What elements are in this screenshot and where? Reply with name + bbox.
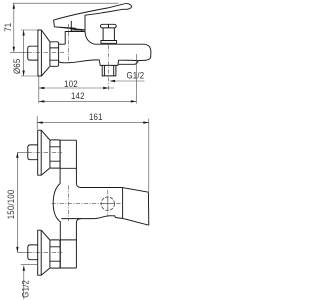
cartridge dome <box>65 32 85 45</box>
svg-text:142: 142 <box>71 90 85 101</box>
extension line 161 right <box>148 119 150 192</box>
outlet circle crosshair <box>101 197 115 211</box>
spout top slope <box>123 188 149 193</box>
spout divider line <box>122 188 124 219</box>
nut bottom connection <box>50 240 60 268</box>
arrow up 71 <box>13 3 15 9</box>
nut facet lines <box>50 48 59 60</box>
wall pipe stub bottom <box>28 245 38 260</box>
wall pipe stub (side) <box>28 46 38 60</box>
svg-text:G1/2: G1/2 <box>126 70 144 81</box>
nut facets top <box>50 147 60 161</box>
dome fillet to body <box>85 32 95 45</box>
shower outlet flange <box>99 60 118 66</box>
arrow down d65 <box>22 71 24 77</box>
top leg block bottom line <box>60 167 76 169</box>
svg-text:G1/2: G1/2 <box>20 280 31 298</box>
svg-text:161: 161 <box>89 111 103 122</box>
svg-text:71: 71 <box>2 23 13 32</box>
neck line right <box>81 30 83 32</box>
arrow right 142 <box>131 100 137 102</box>
spout lower line <box>118 61 138 65</box>
bottom leg cap <box>60 267 76 269</box>
lever handle <box>54 4 132 32</box>
extension line pipe axis left <box>10 51 28 53</box>
centerline capsule axis vertical <box>68 186 70 222</box>
centerline circle vertical <box>107 190 109 217</box>
centerline bottom connection <box>28 251 62 253</box>
dimension line 161 <box>37 122 149 124</box>
escutcheon (side) <box>38 30 42 76</box>
capsule/spout bottom edge <box>61 216 149 226</box>
knob flange <box>101 41 117 44</box>
cone bottom edge <box>41 66 50 76</box>
leader arrow G1/2 side <box>110 80 116 82</box>
centerline capsule horizontal <box>52 203 125 205</box>
svg-text:150/100: 150/100 <box>6 189 17 219</box>
extension line 150/100 bottom <box>17 251 27 253</box>
bottom leg right edge + fillet <box>76 219 81 268</box>
neck line left <box>70 21 72 32</box>
thread inner lines <box>104 65 113 76</box>
grip underside line <box>71 29 85 31</box>
arrow left 142 <box>39 100 45 102</box>
top leg right edge + fillet <box>76 140 81 187</box>
arrow right 102 <box>103 87 109 89</box>
extension line wall face <box>38 77 40 104</box>
arrow up 150/100 <box>16 152 18 158</box>
leader G1/2 side <box>110 80 144 82</box>
body top edge right + rounded end <box>95 44 151 60</box>
arrow up d65 <box>22 30 24 36</box>
knob body <box>103 28 114 41</box>
arrow down 150/100 <box>16 247 18 253</box>
outlet circle front <box>101 197 114 210</box>
capsule top edge <box>81 187 123 189</box>
svg-text:Ø65: Ø65 <box>11 59 22 75</box>
dimension line 71 <box>13 3 15 52</box>
escutcheon bottom <box>38 230 42 275</box>
extension line spout end <box>135 54 137 103</box>
dimension line 142 <box>39 100 137 102</box>
centerline cartridge axis <box>67 24 69 62</box>
nut (side) <box>50 42 59 67</box>
centerline shower outlet <box>108 45 110 90</box>
centerline top connection <box>28 151 62 153</box>
nut facets bottom <box>50 247 60 261</box>
extension line top (handle top level) <box>13 2 119 4</box>
body bottom edge left <box>59 60 100 63</box>
wall pipe stub top <box>28 145 38 160</box>
cone top edge <box>41 30 50 42</box>
arrow right 161 <box>143 121 149 123</box>
centerline pipe axis <box>28 51 65 53</box>
escutcheon top <box>38 130 42 175</box>
extension line d65 top <box>21 29 38 31</box>
spout end edge <box>147 192 149 225</box>
cone bottom connection <box>41 230 50 275</box>
dimension line diameter 65 <box>23 30 25 76</box>
extension line 161 left <box>36 116 38 129</box>
bottom leg block top line <box>60 239 76 241</box>
top leg left edge + capsule left bulge + bottom leg left edge <box>53 140 60 268</box>
leader arrow G1/2 bottom <box>23 265 25 271</box>
arrow down 71 <box>13 47 15 53</box>
top leg cap <box>60 139 76 141</box>
dimension line 102 <box>39 87 114 89</box>
leader line G1/2 bottom <box>23 265 25 299</box>
arrow left 161 <box>37 121 43 123</box>
body top edge left <box>59 43 66 45</box>
nut top connection <box>50 140 60 168</box>
cone top connection <box>41 130 50 175</box>
svg-text:102: 102 <box>64 79 78 90</box>
extension line d65 bottom <box>21 75 38 77</box>
knob cap notch <box>108 24 110 28</box>
dimension line 150/100 <box>16 152 18 252</box>
diverter knob cap <box>101 24 117 28</box>
extension line G1/2 bottom <box>21 263 38 265</box>
arrow left 102 <box>39 87 45 89</box>
shower outlet thread <box>102 65 116 76</box>
extension line 150/100 top <box>17 151 27 153</box>
